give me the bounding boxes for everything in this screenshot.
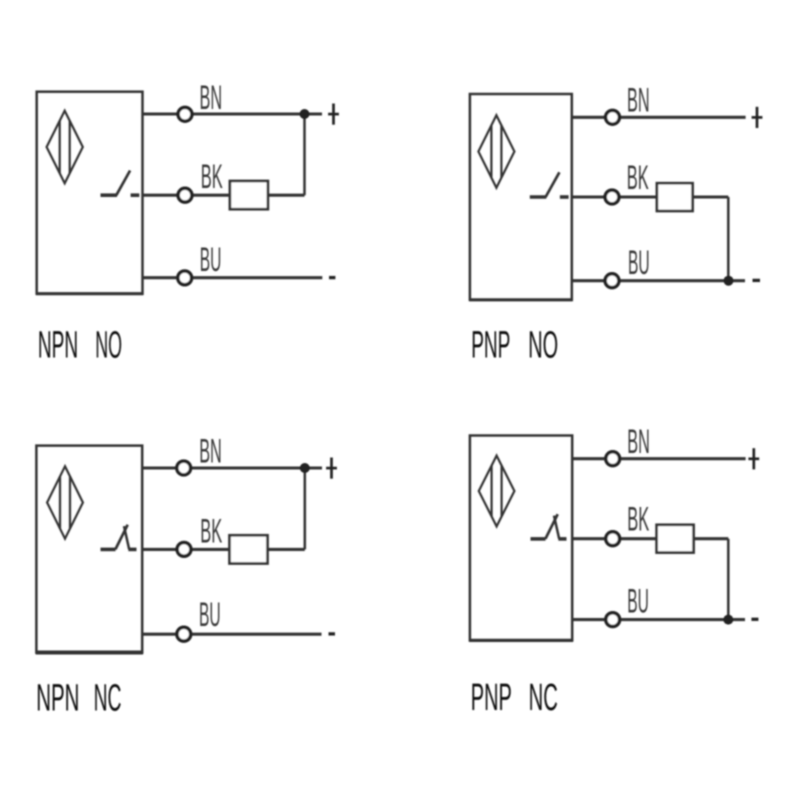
minus terminal NPN NC <box>329 632 336 635</box>
svg-text:BN: BN <box>200 79 223 117</box>
load resistor PNP NO <box>657 183 693 211</box>
svg-text:PNP: PNP <box>471 677 512 719</box>
plus terminal PNP NC <box>748 448 759 469</box>
wire vertical link from load down to BU junction PNP NC <box>727 539 730 620</box>
wire BK NPN NO <box>143 194 305 197</box>
NC switch contact PNP NC <box>531 514 567 539</box>
sensor symbol diamond NPN NO <box>47 111 83 184</box>
wire BN NPN NO <box>143 112 323 115</box>
load resistor NPN NC <box>230 535 268 563</box>
connector circle BK NPN NO <box>178 188 192 202</box>
minus terminal NPN NO <box>329 276 335 279</box>
junction dot on BN NPN NC <box>300 463 310 473</box>
caption PNP NC <box>471 677 558 719</box>
junction dot on BU PNP NO <box>724 276 734 286</box>
wire vertical link from BN junction down to load NPN NC <box>304 468 307 549</box>
connector circle BU NPN NO <box>178 271 192 285</box>
connector circle BN PNP NO <box>606 110 620 124</box>
wire BN PNP NC <box>572 457 745 460</box>
svg-text:BN: BN <box>199 433 222 471</box>
svg-text:NPN: NPN <box>36 677 79 719</box>
svg-text:BU: BU <box>200 241 222 279</box>
junction dot on BN NPN NO <box>300 109 310 119</box>
load resistor PNP NC <box>657 525 694 553</box>
load resistor NPN NO <box>230 181 268 209</box>
minus terminal PNP NC <box>751 618 758 621</box>
wire BN NPN NC <box>142 466 322 469</box>
wire BU PNP NO <box>572 279 745 282</box>
connector circle BK NPN NC <box>177 543 191 557</box>
wire BU NPN NC <box>142 633 321 636</box>
svg-text:NC: NC <box>94 677 122 719</box>
connector circle BU PNP NC <box>606 613 620 627</box>
wire BK PNP NO <box>572 195 729 198</box>
svg-text:BU: BU <box>627 583 649 621</box>
svg-text:BK: BK <box>200 512 222 550</box>
connector circle BK PNP NC <box>606 532 620 546</box>
connector circle BU PNP NO <box>605 274 619 288</box>
svg-text:NO: NO <box>528 325 558 367</box>
svg-text:PNP: PNP <box>471 325 510 367</box>
caption NPN NO <box>38 325 122 367</box>
caption PNP NO <box>471 325 558 367</box>
NO switch contact NPN NO <box>101 171 140 196</box>
wire vertical link from load down to BU junction PNP NO <box>727 197 730 281</box>
connector circle BN PNP NC <box>606 452 620 466</box>
connector circle BN NPN NC <box>177 461 191 475</box>
wire BK PNP NC <box>572 537 728 540</box>
svg-text:BN: BN <box>627 82 650 120</box>
sensor box NPN NC <box>36 446 143 653</box>
sensor symbol diamond NPN NC <box>47 466 83 538</box>
caption NPN NC <box>36 677 121 719</box>
connector circle BN NPN NO <box>178 107 192 121</box>
svg-text:NC: NC <box>529 677 558 719</box>
svg-text:BU: BU <box>628 244 650 282</box>
NO switch contact PNP NO <box>530 172 569 197</box>
svg-text:BK: BK <box>627 501 649 539</box>
sensor box NPN NO <box>36 92 143 294</box>
wire BN PNP NO <box>572 116 746 119</box>
sensor box PNP NC <box>469 436 573 641</box>
svg-text:NPN: NPN <box>38 325 78 367</box>
connector circle BK PNP NO <box>605 190 619 204</box>
sensor box PNP NO <box>469 94 572 300</box>
sensor symbol diamond PNP NC <box>479 456 515 527</box>
junction dot on BU PNP NC <box>723 615 733 625</box>
NC switch contact NPN NC <box>101 525 137 550</box>
svg-text:BN: BN <box>627 423 650 461</box>
plus terminal NPN NC <box>326 458 337 479</box>
svg-text:BU: BU <box>199 596 221 634</box>
wire BK NPN NC <box>142 548 305 551</box>
connector circle BU NPN NC <box>177 627 191 641</box>
svg-text:BK: BK <box>627 159 649 197</box>
plus terminal NPN NO <box>328 104 339 125</box>
wire BU PNP NC <box>572 618 745 621</box>
wire BU NPN NO <box>143 276 323 279</box>
wire vertical link from BN junction down to load NPN NO <box>303 114 306 195</box>
minus terminal PNP NO <box>753 279 761 282</box>
svg-text:NO: NO <box>95 325 122 367</box>
plus terminal PNP NO <box>752 107 763 128</box>
svg-text:BK: BK <box>201 158 223 196</box>
sensor symbol diamond PNP NO <box>478 115 514 188</box>
